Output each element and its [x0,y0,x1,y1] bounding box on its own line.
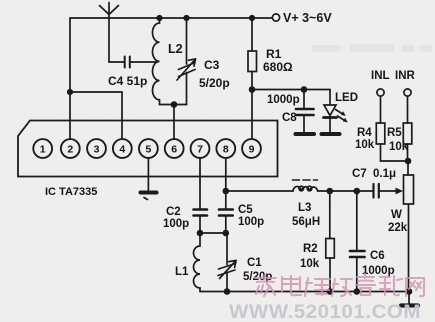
label LED [335,92,358,104]
svg-text:WWW.520101.COM: WWW.520101.COM [229,301,421,322]
node tank bottom [171,101,178,108]
capacitor C8 [296,90,314,133]
wire pin8 node to L3 [226,190,293,192]
svg-text:V+ 3~6V: V+ 3~6V [283,11,332,25]
pin 6 [165,139,184,158]
svg-text:56μH: 56μH [292,216,320,228]
wire top rail [70,17,272,19]
LED emission arrows [336,110,346,122]
trimmer capacitor C1 [218,233,236,292]
pin 9 [242,139,261,158]
svg-text:8: 8 [223,143,229,155]
node below C5 [223,230,230,237]
svg-text:1000p: 1000p [267,94,300,106]
label C6 [370,250,385,262]
svg-text:IC TA7335: IC TA7335 [45,186,97,198]
resistor R5 [403,96,412,161]
svg-text:2: 2 [67,143,73,155]
capacitor C4 [125,57,130,68]
inductor L3 [293,186,318,191]
node R2 bottom [327,288,334,295]
wire C2 C5 bottom link [200,232,226,234]
wire pin 8 down [225,158,227,208]
label C7 value [373,168,396,180]
svg-text:INL: INL [371,70,390,82]
wire antenna to C4 [109,61,124,63]
capacitor C5 [219,210,233,234]
label C1 [247,257,262,269]
label R4 value [355,139,375,151]
svg-text:22k: 22k [388,222,408,234]
svg-text:L1: L1 [175,266,189,278]
antenna [100,3,119,63]
label R2 [303,243,318,255]
svg-text:100p: 100p [163,218,189,230]
wire pin 5 to ground [147,158,149,191]
IC U1 TA7335 body [18,121,278,177]
label R1 [266,47,282,61]
label C8 value [267,94,300,106]
potentiometer W [404,161,414,292]
svg-text:C4 51p: C4 51p [108,74,147,88]
svg-text:10k: 10k [389,141,409,153]
watermark Chinese line [255,274,424,296]
wire C4 to L2 [131,61,158,63]
node R4 R5 junction [405,158,412,165]
capacitor C7 [374,184,379,198]
label L3 value [292,216,320,228]
ground pin 5 [141,193,157,200]
wire node to pin 9 [251,90,253,140]
resistor R4 [376,96,408,161]
svg-text:680Ω: 680Ω [263,60,293,74]
label W [391,209,402,221]
svg-text:1: 1 [40,143,46,155]
label C6 value [362,265,395,277]
wire tank bottom [160,104,187,106]
label R5 value [389,141,409,153]
svg-text:7: 7 [197,143,203,155]
label R2 value [300,258,320,270]
node below C2 [197,230,204,237]
svg-text:C1: C1 [247,257,262,269]
svg-text:R5: R5 [387,127,402,139]
node C6 bottom [354,288,361,295]
label C4 51p [108,74,147,88]
wire tank to pin 6 [173,105,175,140]
wire pin 7 down [199,158,201,208]
wire branch to pin 4 [70,92,122,139]
node bottom right [406,288,413,295]
node A junction left [67,89,73,95]
node top of C3 [183,15,189,21]
wire node to LED [252,89,330,91]
svg-text:C2: C2 [166,206,181,218]
label V+ 3~6V [283,11,332,25]
pin 8 [216,139,235,158]
label C3 [204,58,220,72]
pin 4 [113,139,132,158]
svg-text:4: 4 [119,143,125,155]
pin numbers [40,143,255,155]
svg-text:L2: L2 [168,42,183,56]
faint scan smudge top right [311,44,432,52]
capacitor C2 [194,210,208,234]
svg-text:10k: 10k [355,139,375,151]
pin 7 [191,139,210,158]
wire L3 to C7 [318,190,373,192]
svg-text:C7: C7 [352,168,367,180]
svg-text:C3: C3 [204,58,220,72]
label W value [388,222,408,234]
label L2 [168,42,183,56]
label C2 value [163,218,189,230]
svg-text:1000p: 1000p [362,265,395,277]
terminal V+ [272,14,279,21]
label C1 value [243,271,272,283]
pin 2 [61,139,80,158]
resistor R2 [326,191,335,292]
terminal INR [404,89,411,96]
svg-text:100p: 100p [238,216,264,228]
shield dashes above L3 [293,179,318,181]
svg-text:C8: C8 [282,112,297,124]
label C3 value [199,76,230,90]
LED [324,90,337,133]
node R1 bottom [249,86,256,93]
svg-text:INR: INR [395,70,416,82]
pin 1 [33,139,52,158]
capacitor C6 [350,191,365,292]
label C7 [352,168,367,180]
ground LED [322,132,340,136]
wire C7 to W wiper [380,190,399,192]
watermark url line [229,301,421,322]
node top rail R1 [249,15,255,21]
pin 3 [87,139,106,158]
ground bottom right [401,292,418,306]
node C8 top [301,86,308,93]
svg-text:LED: LED [335,92,358,104]
label C2 [166,206,181,218]
label C5 value [238,216,264,228]
svg-text:C5: C5 [238,204,253,216]
inductor L1 [194,233,201,292]
svg-text:0.1μ: 0.1μ [373,168,396,180]
terminal INL [377,89,384,96]
svg-text:10k: 10k [300,258,320,270]
label INL [371,70,390,82]
svg-text:6: 6 [171,143,177,155]
svg-text:R2: R2 [303,243,318,255]
svg-text:5: 5 [145,143,151,155]
svg-text:C6: C6 [370,250,385,262]
label IC TA7335 [45,186,97,198]
label INR [395,70,416,82]
node C6 top [354,188,361,195]
node R2 top [327,188,334,195]
wiper arrowhead [396,188,404,195]
wire left drop to pin 2 [69,18,71,139]
pin 5 [139,139,158,158]
ground C8 [296,132,315,136]
svg-text:9: 9 [249,143,255,155]
label C8 [282,112,297,124]
node pin 8 branch [223,188,230,195]
label C5 [238,204,253,216]
svg-text:L3: L3 [298,202,311,214]
svg-text:3: 3 [94,143,100,155]
wire R1 to node [251,72,253,90]
svg-text:5/20p: 5/20p [199,76,230,90]
svg-text:R1: R1 [266,47,282,61]
wire bottom rail [200,291,409,293]
resistor R1 [248,51,257,72]
svg-text:W: W [391,209,402,221]
node C1 bottom [224,288,231,295]
label L3 [298,202,311,214]
trimmer capacitor C3 [177,18,196,105]
label R5 [387,127,402,139]
node top of L2 [156,15,162,21]
svg-text:R4: R4 [357,127,372,139]
label R4 [357,127,372,139]
label R1 value [263,60,293,74]
inductor L2 [153,18,160,105]
wire top rail to R1 [251,18,253,51]
label L1 [175,266,189,278]
